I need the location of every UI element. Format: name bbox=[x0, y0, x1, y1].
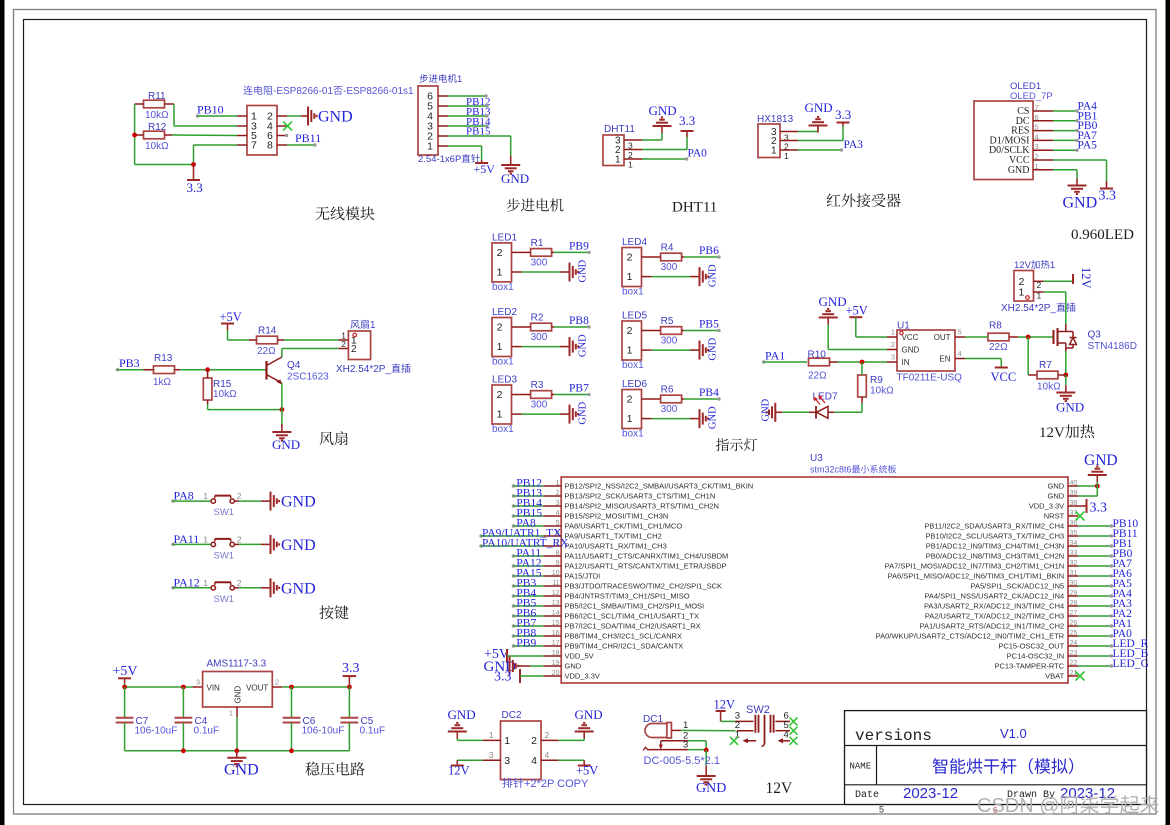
LED4 connector body bbox=[622, 248, 642, 287]
svg-text:+5V: +5V bbox=[220, 310, 242, 324]
svg-text:R12: R12 bbox=[148, 122, 167, 133]
HX1813 pin stubs bbox=[780, 131, 798, 133]
svg-text:PB13/SPI2_SCK/USART3_CTS/TIM1_: PB13/SPI2_SCK/USART3_CTS/TIM1_CH1N bbox=[565, 492, 716, 501]
svg-text:PA11: PA11 bbox=[174, 532, 200, 546]
svg-text:1: 1 bbox=[203, 491, 208, 501]
wire R14 to fan pin1 bbox=[284, 339, 338, 341]
svg-text:2: 2 bbox=[627, 325, 633, 337]
svg-text:LED1: LED1 bbox=[492, 232, 517, 243]
U3 right pin stubs bbox=[1068, 485, 1078, 487]
svg-text:3: 3 bbox=[196, 678, 200, 687]
svg-text:+5V: +5V bbox=[474, 162, 496, 176]
svg-text:VCC: VCC bbox=[902, 333, 919, 342]
svg-text:4: 4 bbox=[958, 349, 962, 358]
svg-text:PC15-OSC32_OUT: PC15-OSC32_OUT bbox=[998, 642, 1064, 651]
regulator U2 AMS1117-3.3 body bbox=[203, 672, 273, 708]
svg-text:2: 2 bbox=[237, 534, 242, 544]
svg-text:PA15/JTDI: PA15/JTDI bbox=[565, 572, 601, 581]
wire PA12 switch to ground bbox=[234, 587, 239, 589]
junction at R12 left bbox=[132, 133, 137, 138]
svg-text:PB6/I2C1_SCL/TIM4_CH1/USART1_T: PB6/I2C1_SCL/TIM4_CH1/USART1_TX bbox=[565, 612, 700, 621]
wire OLED pin2 VCC to 3.3 bbox=[1053, 159, 1107, 161]
power symbol 3.3 U3 pin38 bbox=[1078, 505, 1087, 507]
LED3 connector body bbox=[492, 385, 512, 424]
svg-text:box1: box1 bbox=[622, 287, 644, 298]
wire Q4 collector to fan pin2 bbox=[281, 349, 283, 358]
resistor R14 bbox=[257, 336, 278, 344]
capacitor C5 bbox=[348, 687, 350, 717]
wire U1 OUT to R8 bbox=[965, 336, 988, 338]
svg-text:LED4: LED4 bbox=[622, 237, 647, 248]
junction dots top rail left bbox=[122, 685, 127, 690]
svg-text:PA12: PA12 bbox=[174, 575, 200, 589]
connector DC2 body bbox=[501, 721, 542, 780]
wire DHT11 pin3 to ground bbox=[642, 139, 662, 141]
resistor R9 bbox=[858, 375, 867, 397]
svg-text:R3: R3 bbox=[531, 380, 544, 391]
wire ground to U1 pin2 GND bbox=[827, 325, 829, 350]
svg-text:7: 7 bbox=[251, 140, 257, 152]
svg-text:GND: GND bbox=[1008, 165, 1030, 176]
svg-text:106-10uF: 106-10uF bbox=[135, 726, 178, 737]
svg-text:box1: box1 bbox=[492, 282, 514, 293]
svg-text:3.3: 3.3 bbox=[1090, 501, 1108, 516]
net label PA12 and wire bbox=[171, 586, 174, 589]
svg-text:U3: U3 bbox=[810, 453, 823, 464]
wire LED2 pin1 to ground bbox=[522, 346, 561, 348]
svg-text:GND: GND bbox=[578, 401, 589, 424]
LED6 connector body bbox=[622, 390, 642, 429]
no-connect X at NRST bbox=[1076, 512, 1085, 521]
svg-text:PA1: PA1 bbox=[765, 349, 785, 363]
resistor R10 bbox=[809, 358, 830, 366]
svg-text:PB3/JTDO/TRACESWO/TIM2_CH2/SPI: PB3/JTDO/TRACESWO/TIM2_CH2/SPI1_SCK bbox=[565, 582, 723, 591]
wire stepper pin6 net PB12 bbox=[448, 95, 486, 97]
svg-text:12V: 12V bbox=[1014, 260, 1032, 271]
caption voltage regulator bbox=[305, 762, 319, 776]
svg-text:R5: R5 bbox=[661, 316, 674, 327]
ground symbol GND below OLED bbox=[1076, 179, 1078, 186]
svg-text:VCC: VCC bbox=[991, 370, 1017, 384]
wire junction to ground bbox=[705, 750, 707, 766]
svg-text:GND: GND bbox=[902, 346, 920, 355]
svg-text:12V: 12V bbox=[766, 780, 794, 797]
svg-text:0.1uF: 0.1uF bbox=[360, 726, 386, 737]
value label DC2 bbox=[502, 778, 512, 788]
wire 12V to SW2 pin3 bbox=[721, 720, 736, 722]
svg-text:GND: GND bbox=[565, 662, 582, 671]
wire DC1 pin1 to SW2 pin2 bbox=[681, 729, 736, 731]
svg-text:5: 5 bbox=[958, 328, 962, 337]
svg-text:versions: versions bbox=[855, 727, 932, 745]
svg-text:2: 2 bbox=[627, 252, 633, 264]
connector DHT11 body bbox=[603, 135, 624, 166]
resistor R15 bbox=[203, 378, 212, 400]
ground symbol GND LED6 bbox=[699, 409, 701, 428]
wire DHT11 pin1 net PA0 bbox=[642, 158, 686, 160]
svg-text:2SC1623: 2SC1623 bbox=[287, 372, 329, 383]
svg-text:2: 2 bbox=[237, 491, 242, 501]
svg-text:1: 1 bbox=[628, 160, 633, 170]
svg-text:PB4: PB4 bbox=[699, 387, 719, 399]
svg-text:1: 1 bbox=[627, 271, 633, 283]
svg-text:PB14/SPI2_MISO/USART3_RTS/TIM1: PB14/SPI2_MISO/USART3_RTS/TIM1_CH2N bbox=[565, 502, 719, 511]
ground symbol GND PA11 bbox=[264, 543, 271, 545]
svg-text:PB1/ADC12_IN9/TIM3_CH4/TIM1_CH: PB1/ADC12_IN9/TIM3_CH4/TIM1_CH3N bbox=[926, 542, 1064, 551]
title block project name bbox=[933, 758, 948, 774]
wire stepper pin2 to ground bbox=[448, 135, 511, 137]
wire LED2 net PB8 bbox=[554, 326, 588, 328]
caption wireless module bbox=[316, 207, 330, 220]
svg-text:VIN: VIN bbox=[207, 684, 221, 693]
OLED pin stubs bbox=[1033, 110, 1053, 112]
svg-text:3.3: 3.3 bbox=[494, 670, 512, 685]
wire stepper pin1 to +5V bbox=[448, 145, 482, 147]
svg-text:+5V: +5V bbox=[846, 304, 868, 318]
svg-text:4: 4 bbox=[784, 730, 789, 741]
ground symbol GND LED3 bbox=[569, 405, 571, 424]
svg-text:VDD_3.3V: VDD_3.3V bbox=[565, 672, 600, 681]
svg-text:PA0: PA0 bbox=[688, 148, 708, 160]
svg-text:R1: R1 bbox=[531, 238, 544, 249]
svg-text:LED6: LED6 bbox=[622, 379, 647, 390]
svg-text:PA3: PA3 bbox=[844, 139, 864, 151]
svg-text:1: 1 bbox=[784, 151, 789, 161]
svg-text:GND: GND bbox=[448, 707, 476, 722]
svg-text:300: 300 bbox=[661, 336, 678, 347]
DC1 pin1 stub bbox=[671, 729, 680, 731]
ground symbol GND Q3 bbox=[1065, 388, 1067, 392]
heater connector body bbox=[1014, 271, 1034, 302]
svg-text:2: 2 bbox=[627, 394, 633, 406]
svg-text:V1.0: V1.0 bbox=[1000, 726, 1027, 741]
svg-text:DHT11: DHT11 bbox=[604, 124, 635, 135]
svg-text:R2: R2 bbox=[531, 313, 544, 324]
connector stepper motor ref label bbox=[419, 74, 427, 83]
svg-text:PA2/USART2_TX/ADC12_IN2/TIM2_C: PA2/USART2_TX/ADC12_IN2/TIM2_CH3 bbox=[925, 612, 1064, 621]
svg-text:PB0/ADC12_IN8/TIM3_CH3/TIM1_CH: PB0/ADC12_IN8/TIM3_CH3/TIM1_CH2N bbox=[926, 552, 1064, 561]
svg-text:GND: GND bbox=[578, 259, 589, 282]
svg-text:SW1: SW1 bbox=[214, 550, 235, 561]
svg-text:+5V: +5V bbox=[576, 764, 598, 778]
ground symbol GND LED4 bbox=[699, 267, 701, 286]
svg-text:OUT: OUT bbox=[934, 333, 951, 342]
wire HX1813 pin1 net PA3 bbox=[798, 149, 841, 151]
svg-text:VDD_5V: VDD_5V bbox=[565, 652, 594, 661]
wire LED4 pin1 to ground bbox=[652, 276, 691, 278]
wire U3 pin40 to ground junction bbox=[1078, 485, 1097, 487]
wire DC2 pin4 to +5V bbox=[559, 759, 584, 761]
svg-text:GND: GND bbox=[272, 437, 300, 452]
wire Q3 source to R7 junction bbox=[1065, 351, 1067, 375]
svg-text:2: 2 bbox=[497, 322, 503, 334]
svg-text:PB10: PB10 bbox=[197, 103, 224, 117]
resistor R1 bbox=[531, 249, 552, 257]
power symbol 3.3 HX1813 bbox=[842, 123, 844, 127]
LED5 pin stubs bbox=[642, 330, 652, 332]
svg-text:R10: R10 bbox=[808, 350, 827, 361]
switch SW1 PA12 bbox=[211, 586, 215, 590]
connector stepper motor body bbox=[418, 86, 438, 155]
caption stepper motor bbox=[507, 198, 520, 211]
DHT11 pin stubs bbox=[624, 139, 642, 141]
net label PA8 and wire bbox=[171, 499, 174, 502]
svg-text:PB11/I2C2_SDA/USART3_RX/TIM2_C: PB11/I2C2_SDA/USART3_RX/TIM2_CH4 bbox=[924, 522, 1064, 531]
ground symbol GND LED1 bbox=[569, 263, 571, 282]
IC U1 TF0211E-USQ body bbox=[897, 330, 955, 371]
power symbol 12V heater bbox=[1072, 274, 1074, 284]
title block table bbox=[845, 711, 1147, 805]
LED4 pin stubs bbox=[642, 256, 652, 258]
wire LED1 pin1 to ground bbox=[522, 271, 561, 273]
net label PB3 and wire bbox=[116, 368, 119, 371]
svg-text:R14: R14 bbox=[258, 326, 277, 337]
LED6 pin stubs bbox=[642, 398, 652, 400]
svg-text:Date: Date bbox=[855, 790, 879, 801]
svg-text:PA5: PA5 bbox=[1078, 140, 1098, 152]
power symbol 3.3 OLED bbox=[1106, 181, 1108, 188]
svg-text:2.54-1x6P: 2.54-1x6P bbox=[418, 154, 461, 165]
svg-text:PB15/SPI2_MOSI/TIM1_CH3N: PB15/SPI2_MOSI/TIM1_CH3N bbox=[565, 512, 669, 521]
wire heater pin2 to 12V bbox=[1044, 280, 1074, 282]
ground symbol GND PA8 bbox=[264, 500, 271, 502]
svg-text:+2*2P COPY: +2*2P COPY bbox=[524, 778, 589, 790]
svg-text:2: 2 bbox=[351, 343, 357, 355]
no-connect X marks SW2 bbox=[730, 737, 738, 745]
power symbol +5V stepper bbox=[481, 160, 483, 163]
ground symbol GND LED7 bbox=[775, 411, 782, 413]
svg-text:3: 3 bbox=[489, 750, 494, 760]
fan connector ref label bbox=[350, 320, 359, 329]
svg-text:3: 3 bbox=[683, 739, 688, 750]
svg-text:GND: GND bbox=[1084, 452, 1118, 469]
wire DC2 pin1 to ground bbox=[457, 739, 482, 741]
svg-text:PA1/USART2_RTS/ADC12_IN1/TIM2_: PA1/USART2_RTS/ADC12_IN1/TIM2_CH2 bbox=[920, 622, 1065, 631]
svg-text:R11: R11 bbox=[148, 91, 166, 102]
svg-text:PB12/SPI2_NSS/I2C2_SMBAI/USART: PB12/SPI2_NSS/I2C2_SMBAI/USART3_CK/TIM1_… bbox=[565, 482, 754, 491]
svg-text:3: 3 bbox=[891, 353, 895, 362]
wire LED1 net PB9 bbox=[554, 251, 588, 253]
svg-text:PA8/USART1_CK/TIM1_CH1/MCO: PA8/USART1_CK/TIM1_CH1/MCO bbox=[565, 522, 683, 531]
wire stepper pin5 net PB13 bbox=[448, 105, 487, 107]
svg-text:VDD_3.3V: VDD_3.3V bbox=[1029, 502, 1064, 511]
wire LED5 net PB5 bbox=[684, 330, 718, 332]
no-connect X at VBAT bbox=[1076, 672, 1085, 681]
svg-text:2023-12: 2023-12 bbox=[903, 785, 958, 802]
svg-text:1: 1 bbox=[457, 74, 462, 85]
capacitor C7 bbox=[124, 687, 126, 717]
svg-text:5: 5 bbox=[879, 805, 884, 815]
svg-text:2: 2 bbox=[237, 578, 242, 588]
svg-text:GND: GND bbox=[281, 580, 316, 597]
svg-text:R9: R9 bbox=[870, 375, 883, 386]
caption fan bbox=[320, 432, 334, 446]
wire HX1813 pin2 to 3.3 bbox=[798, 140, 843, 142]
svg-text:10kΩ: 10kΩ bbox=[1037, 382, 1061, 393]
svg-text:SW1: SW1 bbox=[214, 507, 235, 518]
svg-text:IN: IN bbox=[902, 358, 910, 367]
power symbol 3.3 DHT11 bbox=[686, 131, 688, 137]
svg-text:4: 4 bbox=[545, 750, 550, 760]
svg-text:VOUT: VOUT bbox=[246, 684, 268, 693]
svg-text:1: 1 bbox=[627, 413, 633, 425]
svg-text:3: 3 bbox=[504, 755, 510, 767]
svg-text:box1: box1 bbox=[492, 357, 514, 368]
svg-text:DC2: DC2 bbox=[502, 710, 522, 721]
svg-text:GND: GND bbox=[1048, 492, 1065, 501]
svg-text:GND: GND bbox=[649, 103, 677, 118]
svg-text:12V: 12V bbox=[1079, 267, 1093, 289]
wire U3 pin39 to ground junction bbox=[1078, 495, 1097, 497]
svg-text:10kΩ: 10kΩ bbox=[870, 386, 894, 397]
svg-text:PA7/SPI1_MOSI/ADC12_IN7/TIM3_C: PA7/SPI1_MOSI/ADC12_IN7/TIM3_CH2/TIM1_CH… bbox=[885, 562, 1065, 571]
wire DC2 pin3 to 12V bbox=[457, 759, 482, 761]
ground symbol GND above HX1813 bbox=[817, 126, 819, 133]
power symbol 3.3 wireless bbox=[193, 165, 195, 180]
resistor R13 bbox=[154, 366, 175, 374]
svg-text:stm32c8t6: stm32c8t6 bbox=[810, 465, 852, 475]
svg-text:R4: R4 bbox=[661, 243, 674, 254]
ground symbol GND PA12 bbox=[264, 587, 271, 589]
svg-text:300: 300 bbox=[531, 332, 548, 343]
open end at ESP pin6 bbox=[285, 134, 288, 137]
svg-text:PA10/USART1_RX/TIM1_CH3: PA10/USART1_RX/TIM1_CH3 bbox=[565, 542, 667, 551]
resistor R8 bbox=[988, 333, 1009, 341]
ground symbol GND U3 right bbox=[1096, 475, 1098, 482]
wire VOUT to 3.3 top rail bbox=[272, 686, 282, 688]
svg-text:12V: 12V bbox=[448, 764, 470, 778]
resistor R12 bbox=[144, 131, 165, 139]
svg-text:GND: GND bbox=[819, 294, 847, 309]
svg-text:R7: R7 bbox=[1039, 360, 1052, 371]
OLED connector body bbox=[974, 101, 1033, 180]
svg-text:GND: GND bbox=[501, 171, 529, 186]
LED5 connector body bbox=[622, 321, 642, 360]
svg-text:106-10uF: 106-10uF bbox=[302, 726, 345, 737]
svg-text:NAME: NAME bbox=[850, 762, 872, 772]
LED1 connector body bbox=[492, 243, 512, 282]
svg-text:PA11/USART1_CTS/CANRX/TIM1_CH4: PA11/USART1_CTS/CANRX/TIM1_CH4/USBDM bbox=[565, 552, 729, 561]
fan pin stubs bbox=[338, 339, 348, 341]
switch SW1 PA8 bbox=[211, 499, 215, 503]
wireless module section label text bbox=[243, 86, 252, 95]
svg-text:GND: GND bbox=[1056, 400, 1084, 415]
svg-text:GND: GND bbox=[708, 264, 719, 287]
svg-text:2: 2 bbox=[545, 730, 550, 740]
power symbol 3.3 regulator bbox=[348, 676, 350, 687]
svg-text:PA3/USART2_RX/ADC12_IN3/TIM2_C: PA3/USART2_RX/ADC12_IN3/TIM2_CH4 bbox=[924, 602, 1064, 611]
connector J1 ESP8266 body bbox=[247, 106, 277, 156]
svg-text:12V: 12V bbox=[1039, 425, 1065, 441]
ground symbol GND regulator bbox=[236, 751, 238, 758]
svg-text:GND: GND bbox=[761, 398, 772, 421]
connector DC1 barrel jack body bbox=[645, 724, 667, 738]
LED2 pin stubs bbox=[512, 326, 522, 328]
fan connector body bbox=[348, 331, 370, 360]
resistor R2 bbox=[531, 323, 552, 331]
svg-text:0.1uF: 0.1uF bbox=[194, 726, 220, 737]
wire R11 to ESP pin3 bbox=[173, 104, 175, 126]
svg-text:XH2.54*2P_: XH2.54*2P_ bbox=[336, 364, 391, 375]
wire LED6 net PB4 bbox=[684, 398, 718, 400]
wire Q4 emitter down to ground bbox=[281, 383, 283, 410]
LED1 pin stubs bbox=[512, 251, 522, 253]
ground symbol GND DC2 left bbox=[456, 732, 458, 739]
svg-text:1: 1 bbox=[203, 578, 208, 588]
svg-text:TF0211E-USQ: TF0211E-USQ bbox=[897, 373, 963, 384]
svg-text:1: 1 bbox=[203, 534, 208, 544]
svg-text:PB6: PB6 bbox=[699, 245, 719, 257]
svg-text:CSDN @: CSDN @ bbox=[977, 795, 1060, 817]
sheet border outer black strips bbox=[0, 0, 5, 825]
svg-text:NRST: NRST bbox=[1044, 512, 1065, 521]
svg-text:3.3: 3.3 bbox=[187, 180, 203, 195]
wire PA11 switch to ground bbox=[234, 543, 239, 545]
svg-text:+5V: +5V bbox=[113, 664, 138, 679]
svg-text:GND: GND bbox=[578, 334, 589, 357]
wire R7 to gate junction bbox=[1027, 337, 1029, 375]
wire HX1813 pin3 to ground bbox=[798, 131, 818, 133]
wire regulator GND pin to bottom rail bbox=[236, 707, 238, 717]
power symbol 12V DC2 bbox=[456, 760, 458, 765]
net label PB11 wire at ESP pin8 bbox=[287, 144, 315, 146]
resistor R6 bbox=[661, 395, 682, 403]
U3 left net wires and labels bbox=[512, 484, 515, 487]
wire ESP pin7 to 3.3 rail bbox=[194, 144, 238, 146]
wire stepper pin4 net PB14 bbox=[448, 115, 487, 117]
svg-text:8: 8 bbox=[267, 140, 273, 152]
svg-text:2: 2 bbox=[275, 678, 279, 687]
wire R15 bottom to emitter rail bbox=[207, 404, 209, 410]
svg-text:PA8: PA8 bbox=[174, 489, 194, 503]
wire DHT11 pin2 to 3.3 bbox=[642, 149, 687, 151]
svg-text:PB7: PB7 bbox=[569, 383, 589, 395]
svg-text:0.960LED: 0.960LED bbox=[1071, 227, 1134, 243]
svg-text:1: 1 bbox=[497, 341, 503, 353]
resistor R3 bbox=[531, 391, 552, 399]
svg-text:box1: box1 bbox=[622, 360, 644, 371]
svg-text:GND: GND bbox=[696, 781, 726, 796]
transistor Q3 STN4188D MOSFET bbox=[1053, 330, 1055, 344]
svg-text:1: 1 bbox=[1019, 286, 1025, 298]
svg-text:300: 300 bbox=[531, 257, 548, 268]
svg-text:10kΩ: 10kΩ bbox=[145, 110, 169, 121]
svg-text:PB11: PB11 bbox=[295, 131, 321, 145]
svg-text:1: 1 bbox=[1050, 260, 1055, 271]
caption buttons bbox=[319, 605, 333, 619]
svg-text:STN4186D: STN4186D bbox=[1088, 341, 1137, 352]
svg-text:Q4: Q4 bbox=[287, 360, 301, 371]
svg-text:VBAT: VBAT bbox=[1045, 672, 1064, 681]
svg-text:GND: GND bbox=[234, 686, 243, 704]
net label PB10 and wire to ESP pin1 bbox=[196, 114, 199, 117]
U1 pin stubs bbox=[887, 336, 897, 338]
DC2 pin stubs bbox=[483, 739, 501, 741]
switch SW2 body bbox=[735, 720, 753, 722]
svg-text:box1: box1 bbox=[622, 429, 644, 440]
svg-text:GND: GND bbox=[805, 100, 833, 115]
heater pin stubs bbox=[1034, 280, 1044, 282]
svg-text:GND: GND bbox=[575, 707, 603, 722]
wire PA8 switch to ground bbox=[234, 500, 239, 502]
junction at 3.3 stem bbox=[191, 162, 196, 167]
svg-text:PA6/SPI1_MISO/ADC12_IN6/TIM3_C: PA6/SPI1_MISO/ADC12_IN6/TIM3_CH1/TIM1_BK… bbox=[888, 572, 1065, 581]
wire LED3 net PB7 bbox=[554, 394, 588, 396]
wire R12 to ESP pin5 bbox=[172, 134, 237, 137]
net label PA11 and wire bbox=[171, 543, 174, 546]
svg-text:1: 1 bbox=[627, 345, 633, 357]
svg-text:1: 1 bbox=[891, 328, 895, 337]
